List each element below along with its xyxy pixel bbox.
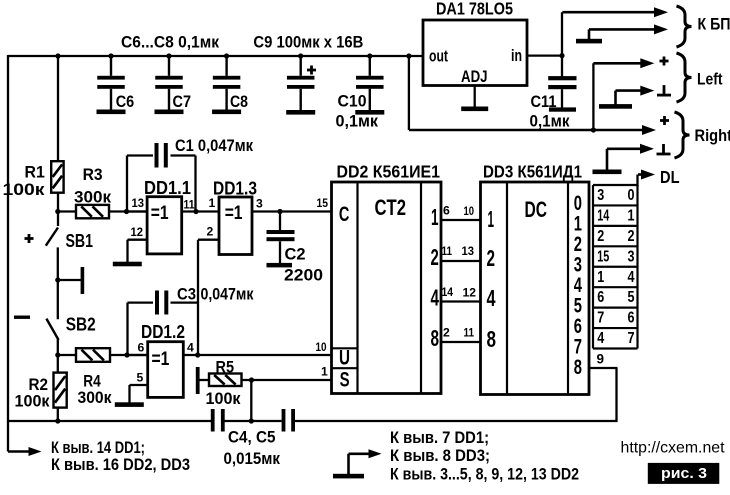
svg-text:DL: DL — [660, 167, 680, 187]
svg-text:4: 4 — [187, 341, 194, 355]
svg-text:=1: =1 — [152, 348, 170, 370]
svg-text:2: 2 — [628, 228, 635, 245]
svg-text:0: 0 — [628, 187, 635, 204]
svg-text:2: 2 — [487, 245, 496, 271]
svg-text:10: 10 — [316, 340, 327, 354]
svg-text:SB1: SB1 — [66, 231, 94, 251]
svg-text:К выв. 3...5, 8, 9, 12, 13 DD2: К выв. 3...5, 8, 9, 12, 13 DD2 — [390, 465, 579, 484]
svg-text:12: 12 — [131, 225, 144, 239]
svg-text:5: 5 — [628, 289, 635, 306]
svg-text:8: 8 — [431, 325, 440, 351]
svg-text:2: 2 — [443, 326, 450, 340]
svg-text:1: 1 — [597, 269, 604, 286]
svg-text:15: 15 — [597, 248, 609, 265]
svg-text:1: 1 — [431, 204, 439, 230]
svg-text:0,015мк: 0,015мк — [224, 449, 281, 468]
svg-text:C6...C8 0,1мк: C6...C8 0,1мк — [121, 33, 219, 52]
svg-text:4: 4 — [431, 285, 440, 311]
svg-text:1: 1 — [209, 196, 216, 210]
svg-text:0,047мк: 0,047мк — [201, 285, 254, 304]
svg-text:DD3 К561ИД1: DD3 К561ИД1 — [483, 162, 582, 182]
svg-text:1: 1 — [488, 206, 495, 232]
svg-text:DA1 78LO5: DA1 78LO5 — [436, 0, 513, 19]
svg-text:in: in — [511, 46, 522, 65]
svg-text:6: 6 — [628, 310, 635, 327]
svg-text:5: 5 — [137, 371, 144, 385]
svg-text:C6: C6 — [116, 92, 135, 111]
svg-text:R5: R5 — [216, 358, 235, 377]
svg-text:C3: C3 — [177, 285, 196, 304]
svg-text:300к: 300к — [78, 388, 112, 407]
svg-text:0,1мк: 0,1мк — [530, 112, 570, 131]
svg-text:C11: C11 — [531, 92, 557, 111]
svg-text:=1: =1 — [151, 202, 169, 224]
svg-text:4: 4 — [597, 330, 604, 347]
svg-text:4: 4 — [487, 285, 496, 311]
svg-text:C9 100мк x 16В: C9 100мк x 16В — [253, 33, 363, 52]
svg-text:1: 1 — [321, 365, 328, 379]
svg-text:300к: 300к — [74, 187, 111, 206]
svg-text:C1 0,047мк: C1 0,047мк — [175, 136, 253, 155]
svg-text:7: 7 — [628, 330, 635, 347]
svg-text:11: 11 — [464, 326, 475, 340]
svg-text:2: 2 — [597, 228, 604, 245]
svg-text:Left: Left — [697, 70, 723, 89]
svg-text:14: 14 — [597, 207, 609, 224]
svg-text:out: out — [429, 47, 448, 66]
svg-text:C4, C5: C4, C5 — [228, 428, 276, 447]
svg-text:рис. 3: рис. 3 — [661, 465, 707, 482]
svg-text:6: 6 — [443, 204, 450, 218]
svg-text:15: 15 — [317, 196, 329, 210]
svg-text:100к: 100к — [15, 392, 50, 411]
svg-text:2: 2 — [431, 244, 439, 270]
svg-text:8: 8 — [487, 326, 497, 352]
svg-text:DD1.3: DD1.3 — [213, 179, 257, 199]
svg-text:C: C — [339, 203, 350, 226]
svg-text:C7: C7 — [173, 92, 192, 111]
svg-text:К выв. 8 DD3;: К выв. 8 DD3; — [390, 446, 490, 465]
svg-text:7: 7 — [597, 310, 604, 327]
svg-text:9: 9 — [597, 352, 605, 367]
svg-text:100к: 100к — [206, 389, 241, 408]
svg-text:DD1.2: DD1.2 — [141, 322, 185, 342]
svg-text:R3: R3 — [83, 165, 103, 184]
svg-text:12: 12 — [463, 286, 477, 300]
svg-text:S: S — [340, 369, 350, 392]
svg-text:2: 2 — [207, 225, 214, 239]
svg-text:К выв. 7 DD1;: К выв. 7 DD1; — [390, 428, 489, 447]
svg-text:4: 4 — [628, 269, 635, 286]
svg-text:=1: =1 — [225, 202, 243, 224]
svg-text:К БП: К БП — [698, 15, 730, 34]
svg-text:Right: Right — [695, 126, 730, 145]
svg-text:11: 11 — [184, 198, 195, 212]
svg-text:13: 13 — [132, 196, 145, 210]
svg-text:3: 3 — [628, 248, 635, 265]
svg-text:C10: C10 — [338, 92, 367, 111]
svg-text:DC: DC — [525, 197, 548, 222]
svg-text:3: 3 — [597, 187, 604, 204]
svg-text:DD1.1: DD1.1 — [144, 178, 191, 198]
svg-text:C2: C2 — [285, 245, 306, 264]
svg-text:10: 10 — [464, 204, 475, 218]
svg-text:ADJ: ADJ — [461, 67, 488, 86]
svg-text:К выв. 16 DD2, DD3: К выв. 16 DD2, DD3 — [51, 455, 190, 474]
svg-text:3: 3 — [256, 197, 263, 211]
svg-text:14: 14 — [442, 285, 454, 299]
svg-text:8: 8 — [574, 356, 582, 379]
svg-text:CT2: CT2 — [375, 195, 407, 220]
svg-text:C8: C8 — [230, 92, 248, 111]
svg-text:1: 1 — [628, 207, 635, 224]
svg-text:2200: 2200 — [284, 266, 323, 285]
svg-text:100к: 100к — [3, 180, 46, 199]
svg-text:6: 6 — [138, 341, 145, 355]
svg-text:DD2 К561ИЕ1: DD2 К561ИЕ1 — [337, 162, 441, 182]
svg-text:11: 11 — [442, 244, 453, 258]
svg-text:0,1мк: 0,1мк — [336, 112, 379, 131]
svg-text:U: U — [339, 347, 350, 370]
svg-text:SB2: SB2 — [66, 315, 96, 335]
svg-text:13: 13 — [462, 244, 475, 258]
svg-text:R1: R1 — [25, 163, 45, 182]
svg-text:http://cxem.net: http://cxem.net — [621, 440, 726, 457]
svg-text:6: 6 — [597, 289, 604, 306]
